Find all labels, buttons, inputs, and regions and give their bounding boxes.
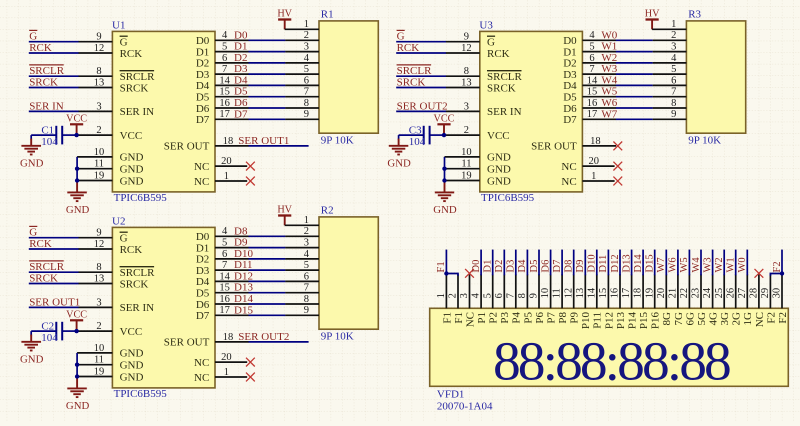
VFD1 pin 11 (P8) [552,274,563,308]
svg-text:D5: D5 [563,92,577,104]
VFD1 pin 19 (P16) [644,274,655,308]
svg-text:GND: GND [487,175,511,187]
svg-text:5: 5 [482,293,493,298]
pin 7 of R3 [653,87,687,98]
svg-text:5: 5 [304,260,309,271]
svg-text:2: 2 [96,125,101,136]
svg-text:3: 3 [304,42,309,53]
VFD1 pin 28 (NC) [749,274,760,308]
svg-text:2: 2 [448,293,459,298]
wire net W5 [616,96,653,98]
svg-text:4: 4 [304,53,310,64]
pin 3 (SER IN) of U3 [446,101,480,112]
pin 17 (D7) of U2 [215,305,249,316]
svg-text:NC: NC [194,176,209,188]
power port VCC (U3) [434,114,455,125]
svg-text:D3: D3 [196,69,210,81]
svg-text:D4: D4 [517,259,528,273]
svg-text:10: 10 [94,147,105,158]
wire net D1 to VFD1 pin 5 [492,250,494,276]
power port HV (R2) [277,205,292,216]
wire GND bus of U2 [76,353,78,378]
svg-text:D14: D14 [234,293,253,305]
svg-text:D5: D5 [196,288,210,300]
svg-text:10: 10 [94,343,105,354]
net label G [29,30,37,42]
VFD1 pin 1 (F1) [436,274,447,308]
svg-text:D6: D6 [563,103,577,115]
svg-text:GND: GND [487,164,511,176]
pin name RCK inside U2 [120,244,143,256]
pin 12 (RCK) of U1 [79,43,113,54]
svg-text:F1: F1 [436,261,447,272]
svg-text:VCC: VCC [66,114,87,125]
pin 11 (GND) of U1 [77,159,112,170]
svg-text:15: 15 [219,283,230,294]
wire net D5 to VFD1 pin 9 [538,250,540,276]
wire net SRCK to U2 pin 13 [29,283,79,285]
wire net W2 to VFD1 pin 25 [723,250,725,276]
svg-text:C1: C1 [41,125,54,137]
svg-text:P4: P4 [511,312,523,324]
svg-text:7G: 7G [673,312,685,326]
VFD1 pin 16 (P13) [610,274,621,308]
svg-text:P7: P7 [546,312,558,324]
pin 9 of R1 [285,109,319,120]
wire net D3 to VFD1 pin 7 [515,250,517,276]
wire net D14 to VFD1 pin 18 [642,250,644,276]
svg-text:D6: D6 [540,260,551,273]
svg-text:D7: D7 [234,108,248,120]
wire net W1 to VFD1 pin 26 [735,250,737,276]
pin 1 of R3 [652,19,686,30]
svg-text:26: 26 [725,288,736,299]
svg-text:D0: D0 [563,35,577,47]
svg-text:18: 18 [223,136,234,147]
svg-text:7: 7 [304,283,309,294]
svg-text:28: 28 [749,288,760,299]
wire net D9 to VFD1 pin 13 [584,250,586,276]
wire net G to U1 pin 9 [29,41,79,43]
svg-text:D3: D3 [563,69,577,81]
pin 17 (D7) of U1 [215,109,249,120]
pin 7 of R2 [285,283,319,294]
svg-text:VCC: VCC [66,310,87,321]
pin 4 (D0) of U1 [215,30,249,41]
VFD1 pin 18 (P15) [633,274,644,308]
pin name SER IN inside U1 [120,106,155,118]
svg-text:20: 20 [221,352,232,363]
wire net SER OUT2 [249,341,309,343]
svg-text:4G: 4G [708,312,720,326]
wire net W2 [616,62,653,64]
svg-text:F2: F2 [777,312,789,324]
svg-text:24: 24 [702,287,713,298]
svg-text:VCC: VCC [120,326,143,338]
pin 13 (SRCK) of U3 [446,77,480,88]
pin 3 of R1 [285,42,319,53]
svg-text:30: 30 [772,288,783,299]
capacitor C3 104 [399,126,444,145]
svg-text:14: 14 [586,287,597,298]
junction on GND bus U2 (pin 19) [75,374,79,378]
svg-text:3: 3 [96,297,101,308]
VFD1 pin 7 (P4) [505,274,516,308]
wire net W0 to VFD1 pin 27 [746,250,748,276]
svg-text:P8: P8 [557,312,569,324]
wire VCC stem U2 [76,321,78,331]
pin 5 (D1) of U2 [215,238,249,249]
no-connect X on pin 1 of U1 [246,177,255,186]
wire net W5 to VFD1 pin 22 [688,250,690,276]
svg-text:P13: P13 [615,312,627,330]
VFD1 pin 15 (P12) [598,274,609,308]
svg-text:SRCLR: SRCLR [29,65,65,77]
svg-text:TPIC6B595: TPIC6B595 [481,192,535,204]
VFD1 pin 5 (P2) [482,274,493,308]
pin name SRCLR inside U1 [120,71,156,83]
svg-text:D0: D0 [196,231,210,243]
wire net SER OUT1 [249,145,309,147]
pin name RCK inside U1 [120,48,143,60]
svg-text:6: 6 [304,271,309,282]
svg-text:W6: W6 [668,257,679,272]
no-connect X on pin 20 of U1 [246,162,255,171]
svg-text:D5: D5 [196,92,210,104]
svg-text:D2: D2 [196,58,209,70]
svg-text:F2: F2 [765,312,777,324]
wire net D7 [249,118,286,120]
wire net D4 to VFD1 pin 8 [526,250,528,276]
VFD1 pin 24 (4G) [702,274,713,308]
svg-text:D13: D13 [234,282,253,294]
svg-text:D4: D4 [196,276,210,288]
svg-text:1: 1 [224,367,229,378]
wire net W3 [616,73,653,75]
wire net D10 to VFD1 pin 14 [596,250,598,276]
svg-text:2: 2 [671,30,676,41]
wire HV to R1 pin 1 [284,20,286,29]
pin 1 (NC) of U3 [582,171,614,182]
wire net W7 [616,118,653,120]
pin 9 (G) of U1 [79,32,113,43]
svg-text:W0: W0 [601,29,617,41]
VFD1 pin 29 (F2) [760,274,771,308]
wire net SRCLR to U1 pin 8 [29,75,79,77]
svg-text:VCC: VCC [120,130,143,142]
svg-text:SER IN: SER IN [487,106,522,118]
VFD1 pin 8 (P5) [517,274,528,308]
net label SRCK [397,77,426,89]
svg-text:D6: D6 [196,299,210,311]
svg-text:W4: W4 [601,74,617,86]
svg-text:VCC: VCC [434,114,455,125]
ground C3 ground [387,146,411,170]
svg-text:D2: D2 [196,254,209,266]
svg-text:SER OUT1: SER OUT1 [29,296,80,308]
pin 1 (NC) of U2 [215,367,247,378]
svg-text:D7: D7 [196,310,210,322]
resistor network R3 9P 10K body [686,21,745,133]
svg-text:15: 15 [587,87,598,98]
svg-text:18: 18 [633,288,644,299]
junction on GND bus U1 (pin 19) [75,178,79,182]
svg-text:3: 3 [464,101,469,112]
net label SRCLR [397,65,433,77]
svg-text:8: 8 [464,66,469,77]
VFD1 pin 14 (P11) [586,274,597,308]
net label SER OUT2 [397,100,448,112]
svg-text:16: 16 [219,98,230,109]
pin 6 (D2) of U3 [582,53,616,64]
pin 13 (SRCK) of U1 [79,77,113,88]
svg-text:P9: P9 [569,312,581,324]
junction on GND bus U3 (pin 19) [442,178,446,182]
svg-text:SER OUT: SER OUT [531,141,577,153]
wire net D6 [249,107,286,109]
svg-text:GND: GND [66,400,90,412]
pin 10 (GND) of U3 [445,147,480,158]
svg-text:SRCK: SRCK [120,278,149,290]
no-connect X on SER OUT of U3 [613,142,622,151]
pin 7 (D3) of U3 [582,64,616,75]
svg-text:GND: GND [120,348,144,360]
svg-text:C2: C2 [41,321,54,333]
svg-text:1: 1 [591,171,596,182]
svg-text:W4: W4 [691,257,702,273]
svg-text:17: 17 [587,109,598,120]
wire C3 to ground [398,135,400,140]
VFD1 pin 3 (NC) [459,274,470,308]
pin 3 of R2 [285,238,319,249]
net label SRCK [29,77,58,89]
svg-text:GND: GND [66,204,90,216]
svg-text:13: 13 [94,77,105,88]
svg-text:VCC: VCC [487,130,510,142]
svg-text:8: 8 [517,293,528,298]
svg-text:GND: GND [120,175,144,187]
svg-text:D11: D11 [234,259,253,271]
capacitor C2 104 [31,322,76,341]
wire net F1 to VFD1 pin 1 [445,250,447,276]
pin 6 (D2) of U2 [215,249,249,260]
wire net W3 to VFD1 pin 24 [712,250,714,276]
junction VCC/C1 [74,133,78,137]
svg-text:W2: W2 [601,52,617,64]
pin 4 of R3 [653,53,687,64]
VFD1 pin 13 (P10) [575,274,586,308]
svg-text:9: 9 [304,109,309,120]
svg-text:9: 9 [529,293,540,298]
svg-text:D1: D1 [196,46,209,58]
wire net D13 [249,292,286,294]
svg-text:F2: F2 [772,261,783,272]
pin 10 (GND) of U1 [77,147,112,158]
svg-text:5: 5 [222,238,227,249]
svg-text:GND: GND [120,360,144,372]
svg-text:14: 14 [219,75,230,86]
svg-text:SER OUT1: SER OUT1 [238,135,289,147]
svg-text:VFD1: VFD1 [437,389,465,401]
svg-text:RCK: RCK [487,48,510,60]
pin 15 (D5) of U3 [582,87,616,98]
svg-text:W6: W6 [601,97,617,109]
svg-text:P1: P1 [476,312,488,324]
wire net D12 to VFD1 pin 16 [619,250,621,276]
svg-text:8G: 8G [661,312,673,326]
svg-text:C3: C3 [409,125,422,137]
svg-text:W7: W7 [601,108,617,120]
VFD1 pin 30 (F2) [772,274,783,308]
VFD1 pin 2 (F1) [448,274,459,308]
pin name G inside U1 [120,36,128,48]
VFD1 pin 27 (1G) [737,274,748,308]
IC U3 TPIC6B595 body [480,31,583,192]
svg-text:6G: 6G [684,312,696,326]
svg-text:D3: D3 [506,260,517,273]
VFD1 pin 6 (P3) [494,274,505,308]
wire net D4 [249,84,286,86]
svg-text:R3: R3 [688,9,701,21]
pin 3 (SER IN) of U1 [79,101,113,112]
svg-text:19: 19 [94,366,105,377]
svg-text:17: 17 [219,109,230,120]
net label RCK [397,42,420,54]
pin 11 (GND) of U2 [77,355,112,366]
svg-text:D15: D15 [645,254,656,272]
power port HV (R3) [645,9,660,20]
svg-text:8: 8 [96,66,101,77]
svg-text:3: 3 [459,293,470,298]
wire C2 to ground [30,331,32,336]
svg-text:SER OUT: SER OUT [164,337,210,349]
svg-text:D6: D6 [234,97,248,109]
power port VCC (U1) [66,114,87,125]
svg-text:1: 1 [304,19,309,30]
svg-text:12: 12 [563,288,574,299]
svg-text:D12: D12 [234,270,253,282]
svg-text:104: 104 [409,136,426,148]
pin 13 (SRCK) of U2 [79,273,113,284]
svg-text:RCK: RCK [120,48,143,60]
wire net D13 to VFD1 pin 17 [631,250,633,276]
svg-text:HV: HV [645,9,660,20]
svg-text:W2: W2 [714,257,725,272]
VFD1 pin 4 (P1) [471,274,482,308]
wire VCC stem U1 [76,125,78,135]
svg-text:3G: 3G [719,312,731,326]
svg-text:D1: D1 [563,46,576,58]
svg-text:P3: P3 [499,312,511,324]
svg-text:20070-1A04: 20070-1A04 [437,401,493,413]
svg-text:SER IN: SER IN [120,302,155,314]
svg-text:SRCK: SRCK [29,77,58,89]
svg-text:P5: P5 [522,312,534,324]
wire net D11 [249,269,286,271]
wire net W0 [616,39,653,41]
pin 4 (D0) of U3 [582,30,616,41]
svg-text:SER IN: SER IN [29,100,64,112]
pin name SER IN inside U2 [120,302,155,314]
wire VCC to U2 pin 2 [77,330,113,332]
wire F2 jog pins 29-30 [770,274,782,276]
pin name SRCK inside U3 [487,82,516,94]
pin 16 (D6) of U2 [215,294,249,305]
pin 14 (D4) of U1 [215,75,249,86]
svg-text:3: 3 [304,238,309,249]
wire net G to U2 pin 9 [29,237,79,239]
no-connect X on pin 20 of U2 [246,358,255,367]
svg-text:10: 10 [540,288,551,299]
svg-text:P14: P14 [627,312,639,330]
power port VCC (U2) [66,310,87,321]
svg-text:9: 9 [96,228,101,239]
svg-text:18: 18 [590,136,601,147]
svg-text:D13: D13 [621,254,632,272]
svg-text:D2: D2 [563,58,576,70]
svg-text:NC: NC [194,357,209,369]
svg-text:10: 10 [461,147,472,158]
svg-text:D0: D0 [196,35,210,47]
net label SRCLR [29,261,65,273]
svg-text:SRCK: SRCK [487,82,516,94]
wire net W6 to VFD1 pin 21 [677,250,679,276]
pin 8 (SRCLR) of U3 [446,66,480,77]
pin 15 (D5) of U1 [215,87,249,98]
svg-text:16: 16 [587,98,598,109]
ground U3 GND bus [433,192,457,216]
pin 11 (GND) of U3 [445,159,480,170]
pin 8 (SRCLR) of U1 [79,66,113,77]
wire HV to R3 pin 1 [651,20,653,29]
wire net W7 to VFD1 pin 20 [665,250,667,276]
junction F1 (VFD1 pin 1) [444,271,448,275]
wire net D1 [249,51,286,53]
pin 5 of R1 [285,64,319,75]
ground C2 ground [20,342,44,366]
svg-text:SER OUT: SER OUT [164,141,210,153]
svg-text:9: 9 [304,305,309,316]
svg-text:SER OUT2: SER OUT2 [397,100,448,112]
svg-text:G: G [397,31,405,43]
wire net F2 to VFD1 pin 30 [781,250,783,276]
pin 8 of R3 [653,98,687,109]
svg-text:5: 5 [304,64,309,75]
svg-text:GND: GND [20,158,44,170]
pin 7 (D3) of U1 [215,64,249,75]
pin 12 (RCK) of U2 [79,239,113,250]
svg-text:20: 20 [589,156,600,167]
wire net D3 [249,73,286,75]
svg-text:7: 7 [222,260,227,271]
svg-text:2: 2 [304,226,309,237]
svg-text:RCK: RCK [397,42,420,54]
svg-text:U1: U1 [112,19,125,31]
svg-text:GND: GND [20,354,44,366]
junction on GND bus U3 [442,167,446,171]
svg-text:SRCLR: SRCLR [29,261,65,273]
svg-text:D1: D1 [483,260,494,273]
VFD1 pin 23 (5G) [691,274,702,308]
svg-text:D4: D4 [563,80,577,92]
pin 4 of R1 [285,53,319,64]
pin 2 of R3 [653,30,687,41]
svg-text:W1: W1 [601,41,617,53]
svg-text:P2: P2 [488,312,500,324]
svg-text:13: 13 [461,77,472,88]
svg-text:4: 4 [589,30,595,41]
net label SRCK [29,273,58,285]
